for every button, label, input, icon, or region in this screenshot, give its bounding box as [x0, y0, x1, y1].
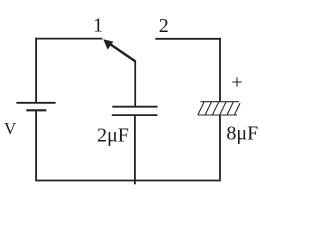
capacitor C1 2uF: bottom plate: [112, 114, 158, 116]
svg-text:+: +: [231, 72, 242, 94]
battery V: short plate (negative): [26, 109, 46, 111]
capacitor C1 2uF: top plate: [112, 106, 157, 108]
capacitor C2 8uF: hatched top plate outline bottom line: [198, 114, 237, 116]
svg-text:V: V: [4, 119, 17, 138]
wire: bottom horizontal rail: [35, 180, 221, 182]
svg-text:2μF: 2μF: [97, 125, 129, 147]
wire: left vertical upper (battery top lead): [35, 38, 37, 103]
wire: top-left horizontal to contact 1: [35, 38, 102, 40]
capacitor C2 8uF: hatch diagonal lines: [198, 102, 240, 115]
capacitor C2 8uF: hatched top plate outline top line: [201, 101, 240, 103]
svg-text:1: 1: [93, 15, 103, 37]
wire: 2uF upper lead (switch pivot down to top plate): [134, 61, 136, 107]
wire: right vertical upper (to 8uF top): [219, 38, 221, 102]
svg-text:2: 2: [159, 15, 169, 37]
svg-text:8μF: 8μF: [226, 122, 258, 144]
wire: 2uF lower lead: [134, 115, 136, 184]
switch S1: arrowhead at contact 1: [103, 39, 113, 49]
wire: right vertical lower (8uF bottom lead): [219, 115, 221, 180]
battery V: long plate (positive): [16, 102, 55, 104]
wire: left vertical lower (battery bottom lead): [35, 110, 37, 180]
wire: top-right horizontal (contact 2 lead): [155, 38, 221, 40]
switch S1: arm from pivot toward contact 1: [109, 43, 136, 62]
